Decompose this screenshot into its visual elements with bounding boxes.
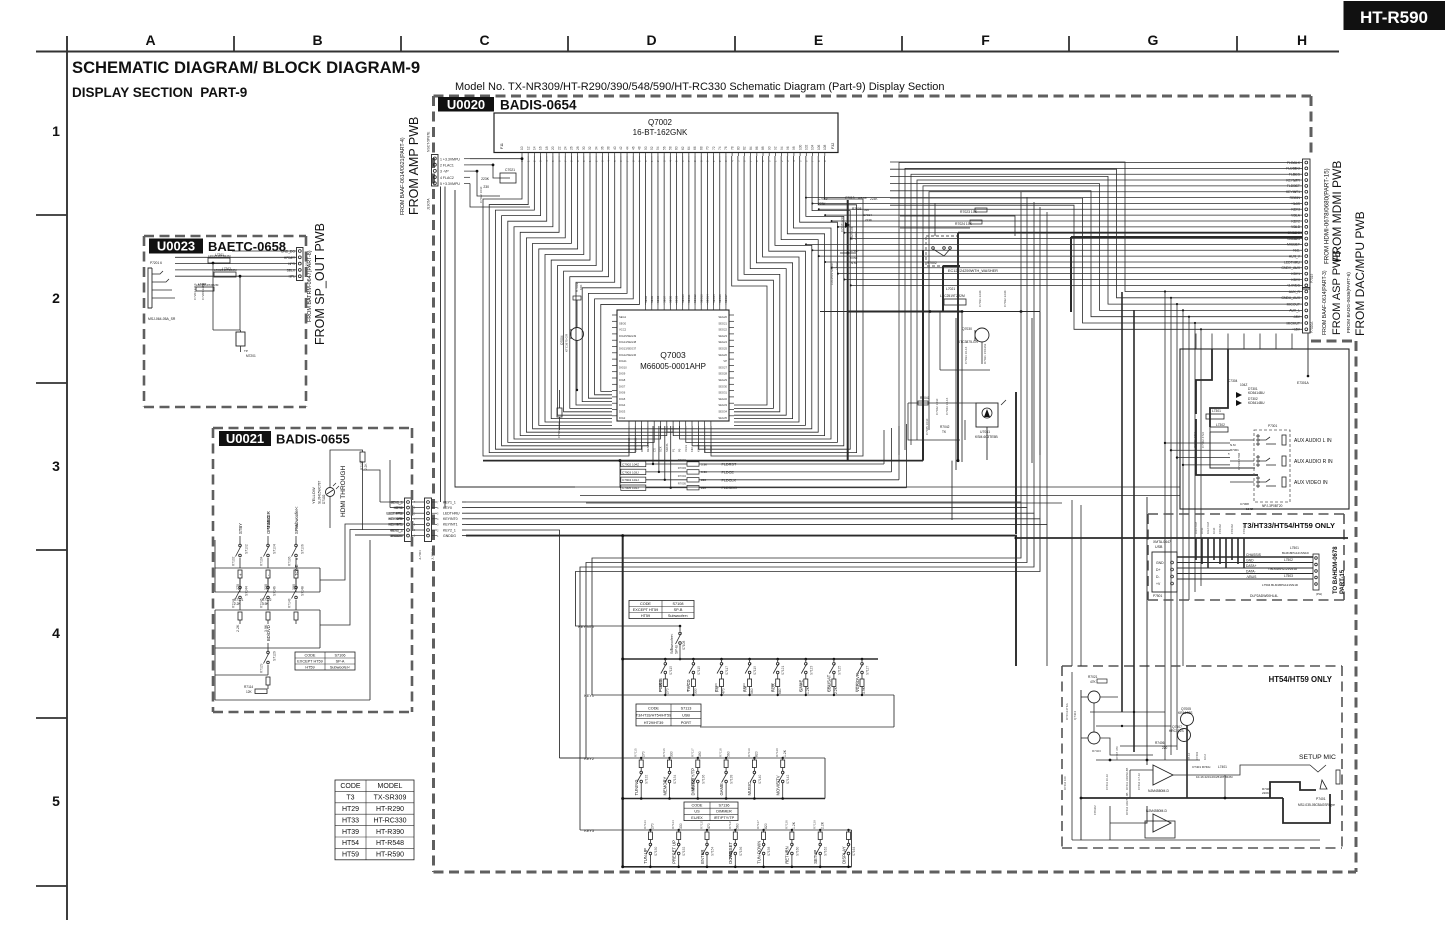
svg-text:78: 78 — [730, 146, 734, 150]
svg-text:P7201 6: P7201 6 — [150, 261, 162, 265]
svg-text:R7004: R7004 — [678, 474, 687, 478]
svg-text:56: 56 — [662, 146, 666, 150]
svg-text:R7111: R7111 — [798, 683, 802, 692]
svg-text:C7031 223K: C7031 223K — [978, 290, 982, 307]
svg-text:U0021: U0021 — [226, 431, 264, 446]
svg-text:*: * — [670, 648, 672, 653]
svg-text:BADIS-0654: BADIS-0654 — [500, 98, 577, 113]
svg-text:BADIS-0655: BADIS-0655 — [276, 432, 350, 447]
svg-text:S7127: S7127 — [866, 666, 870, 675]
svg-text:L7301: L7301 — [1212, 409, 1221, 413]
svg-text:230: 230 — [483, 185, 489, 189]
svg-text:104Z: 104Z — [1212, 527, 1216, 534]
svg-text:TUN UP: TUN UP — [643, 848, 648, 864]
svg-text:*: * — [1228, 452, 1230, 457]
svg-text:P7501: P7501 — [1153, 594, 1162, 598]
svg-text:SEG16: SEG16 — [718, 294, 722, 303]
svg-text:270: 270 — [651, 823, 655, 829]
svg-text:LRC2519T2R2M: LRC2519T2R2M — [208, 254, 231, 258]
svg-text:223K: 223K — [818, 202, 826, 206]
svg-text:C7045 104Z: C7045 104Z — [925, 418, 929, 435]
svg-text:USB: USB — [1155, 545, 1163, 549]
svg-text:D7412 UDZS6.8B: D7412 UDZS6.8B — [1125, 792, 1129, 815]
svg-text:1.2K: 1.2K — [806, 686, 810, 694]
svg-text:JL905A: JL905A — [427, 198, 431, 210]
svg-text:CODE: CODE — [640, 602, 651, 606]
svg-text:VSS: VSS — [703, 446, 707, 452]
svg-text:KIN: KIN — [690, 447, 694, 452]
svg-text:5 +3.3VMPU: 5 +3.3VMPU — [440, 182, 460, 186]
svg-text:74: 74 — [718, 146, 722, 150]
svg-text:DIG11: DIG11 — [619, 359, 627, 363]
svg-text:S7148: S7148 — [301, 586, 305, 596]
svg-text:18: 18 — [545, 146, 549, 150]
svg-text:54: 54 — [656, 146, 660, 150]
svg-text:FROM BADG-0636(PART-6): FROM BADG-0636(PART-6) — [1346, 272, 1352, 333]
svg-text:40: 40 — [613, 146, 617, 150]
svg-text:S7002: S7002 — [927, 261, 937, 265]
svg-text:28: 28 — [576, 146, 580, 150]
svg-text:22: 22 — [557, 146, 561, 150]
svg-text:XMTA-0447: XMTA-0447 — [1153, 540, 1171, 544]
svg-text:C7411 10-16: C7411 10-16 — [1105, 774, 1109, 790]
svg-text:R7102: R7102 — [232, 556, 236, 566]
svg-text:36: 36 — [601, 146, 605, 150]
svg-text:DIG15/SEG39: DIG15/SEG39 — [619, 334, 637, 338]
svg-text:SEG13: SEG13 — [699, 294, 703, 303]
svg-text:KD5414BU: KD5414BU — [1248, 401, 1265, 405]
svg-text:D: D — [646, 32, 656, 48]
svg-text:S7104: S7104 — [273, 544, 277, 554]
svg-text:DIG13/SEG37: DIG13/SEG37 — [619, 347, 637, 351]
svg-text:HT29: HT29 — [342, 806, 359, 813]
svg-text:MSJ-035-05CBAGSRtype: MSJ-035-05CBAGSRtype — [1298, 803, 1335, 807]
svg-text:DATA+: DATA+ — [1246, 564, 1257, 568]
svg-text:F11: F11 — [500, 143, 504, 149]
svg-text:HT-R590: HT-R590 — [376, 852, 404, 859]
svg-text:KEYINT1: KEYINT1 — [388, 523, 402, 527]
svg-text:30: 30 — [582, 146, 586, 150]
svg-text:46: 46 — [631, 146, 635, 150]
svg-text:R7119: R7119 — [747, 748, 751, 757]
svg-text:EXCEPT HT59: EXCEPT HT59 — [633, 608, 658, 612]
svg-text:DIG10: DIG10 — [619, 365, 627, 369]
svg-text:470: 470 — [707, 823, 711, 829]
svg-text:C7018 223K: C7018 223K — [840, 216, 844, 232]
svg-text:PORT: PORT — [681, 721, 692, 725]
svg-text:GNDDG: GNDDG — [390, 534, 403, 538]
svg-text:AUX AUDIO L IN: AUX AUDIO L IN — [1294, 438, 1332, 444]
svg-text:SEG21: SEG21 — [718, 321, 727, 325]
svg-text:R7118: R7118 — [719, 748, 723, 757]
svg-text:KRC102S: KRC102S — [1169, 729, 1184, 733]
svg-text:C7042 104Z: C7042 104Z — [935, 398, 939, 415]
svg-text:S7106: S7106 — [301, 544, 305, 554]
svg-text:S7115: S7115 — [697, 666, 701, 675]
svg-text:SEG6: SEG6 — [656, 295, 660, 303]
svg-text:TP: TP — [244, 349, 248, 353]
svg-text:LRC2519T2R2M: LRC2519T2R2M — [830, 263, 834, 285]
svg-text:E: E — [814, 32, 823, 48]
svg-text:R7123: R7123 — [643, 820, 647, 829]
svg-text:HT54/HT59 ONLY: HT54/HT59 ONLY — [1269, 675, 1333, 684]
svg-text:70: 70 — [706, 146, 710, 150]
svg-text:SP-B: SP-B — [674, 608, 683, 612]
svg-text:D-: D- — [1156, 575, 1160, 579]
svg-text:330: 330 — [679, 823, 683, 829]
svg-text:MSJ-064-05A_SR: MSJ-064-05A_SR — [148, 317, 176, 321]
svg-text:68: 68 — [699, 146, 703, 150]
svg-text:48: 48 — [638, 146, 642, 150]
svg-text:SDATA: SDATA — [665, 443, 669, 452]
svg-text:DIG3: DIG3 — [619, 410, 626, 414]
svg-text:*: * — [296, 558, 298, 564]
svg-text:C7308: C7308 — [1240, 502, 1249, 506]
svg-text:104: 104 — [811, 144, 815, 150]
svg-text:S7106: S7106 — [335, 653, 346, 657]
svg-text:R7107: R7107 — [686, 683, 690, 692]
svg-text:C7403: C7403 — [1195, 751, 1199, 760]
svg-text:223K: 223K — [870, 197, 878, 201]
svg-text:R7003: R7003 — [678, 466, 687, 470]
svg-text:SPLX: SPLX — [287, 268, 296, 272]
svg-text:KRA102S: KRA102S — [1178, 711, 1193, 715]
svg-text:84: 84 — [749, 146, 753, 150]
svg-text:3.9K: 3.9K — [262, 602, 269, 606]
svg-text:3 -VP: 3 -VP — [440, 170, 449, 174]
svg-text:CODE: CODE — [340, 783, 361, 790]
svg-text:Q7030: Q7030 — [962, 327, 972, 331]
svg-text:CHASSIS: CHASSIS — [1246, 553, 1262, 557]
svg-text:Q7003: Q7003 — [660, 350, 686, 360]
svg-text:R7116: R7116 — [662, 748, 666, 757]
svg-text:104Z: 104Z — [1246, 507, 1253, 511]
svg-text:26: 26 — [570, 146, 574, 150]
svg-text:SEG15: SEG15 — [712, 294, 716, 303]
svg-text:+V: +V — [1156, 582, 1161, 586]
svg-text:R7412 100: R7412 100 — [1063, 776, 1067, 790]
svg-text:HT59: HT59 — [342, 852, 359, 859]
svg-text:SP-B: SP-B — [675, 645, 679, 654]
svg-text:C7033 10-16: C7033 10-16 — [964, 346, 968, 364]
svg-text:SEG31: SEG31 — [718, 391, 727, 395]
svg-text:50: 50 — [644, 146, 648, 150]
svg-text:S7138: S7138 — [730, 775, 734, 784]
svg-text:YELLOW: YELLOW — [311, 487, 316, 504]
svg-text:OSC: OSC — [709, 446, 713, 452]
svg-text:DIG12/SEG36: DIG12/SEG36 — [619, 353, 637, 357]
svg-text:R7127: R7127 — [756, 820, 760, 829]
svg-text:1.2K: 1.2K — [792, 821, 796, 829]
svg-text:C7904 101J: C7904 101J — [622, 478, 639, 482]
svg-text:R7106: R7106 — [288, 556, 292, 566]
svg-text:C7022 104Z: C7022 104Z — [479, 186, 483, 203]
svg-text:P7401: P7401 — [1316, 797, 1326, 801]
svg-text:EC12E24259WTH_WASHER: EC12E24259WTH_WASHER — [948, 269, 998, 273]
svg-text:R7417 470: R7417 470 — [1115, 746, 1119, 760]
svg-text:4.8-63: 4.8-63 — [858, 196, 867, 200]
svg-text:KEYINT0: KEYINT0 — [443, 517, 458, 521]
svg-text:1.2K: 1.2K — [783, 749, 787, 757]
svg-text:SEG4: SEG4 — [644, 295, 648, 303]
svg-text:S7158: S7158 — [767, 847, 771, 856]
svg-text:P7020A: P7020A — [1310, 321, 1314, 333]
svg-text:S7134: S7134 — [673, 775, 677, 784]
svg-text:94: 94 — [780, 146, 784, 150]
svg-text:3.3K: 3.3K — [701, 462, 707, 466]
svg-text:C7304: C7304 — [1228, 379, 1238, 383]
svg-text:47-16: 47-16 — [1187, 752, 1191, 760]
svg-text:SEG12: SEG12 — [693, 294, 697, 303]
svg-text:Q7004: Q7004 — [560, 335, 564, 345]
svg-text:82: 82 — [743, 146, 747, 150]
svg-text:S7119: S7119 — [753, 666, 757, 675]
svg-text:220: 220 — [701, 478, 706, 482]
svg-text:T3/HT33/HT54/HT59: T3/HT33/HT54/HT59 — [636, 714, 671, 718]
svg-text:Subwoofer<: Subwoofer< — [668, 614, 689, 618]
svg-text:SCHEMATIC DIAGRAM/ BLOCK DIAGR: SCHEMATIC DIAGRAM/ BLOCK DIAGRAM-9 — [72, 58, 420, 77]
svg-text:SETUP MIC: SETUP MIC — [1299, 754, 1336, 761]
svg-text:S7144: S7144 — [245, 586, 249, 596]
svg-text:S7154: S7154 — [711, 847, 715, 856]
svg-text:S7113: S7113 — [681, 706, 692, 710]
svg-text:680: 680 — [778, 688, 782, 694]
svg-text:C7302 472J: C7302 472J — [1201, 431, 1205, 448]
svg-text:270: 270 — [666, 688, 670, 694]
svg-text:FROM MDMI PWB: FROM MDMI PWB — [1330, 161, 1344, 262]
svg-text:FROM AMP PWB: FROM AMP PWB — [407, 117, 421, 215]
svg-text:D7002: D7002 — [854, 231, 858, 240]
svg-text:DIG2: DIG2 — [619, 416, 626, 420]
svg-text:12K: 12K — [246, 690, 253, 694]
svg-text:S7136: S7136 — [719, 803, 730, 807]
svg-text:3: 3 — [52, 458, 60, 474]
svg-text:KD5414BU: KD5414BU — [1248, 391, 1265, 395]
svg-text:BAETC-0658: BAETC-0658 — [208, 239, 286, 254]
svg-text:C7903 103J: C7903 103J — [622, 470, 639, 474]
svg-text:SEG10: SEG10 — [681, 294, 685, 303]
svg-text:PART-15: PART-15 — [1340, 569, 1346, 594]
svg-text:MOVIE/TV: MOVIE/TV — [776, 775, 781, 795]
svg-text:62: 62 — [681, 146, 685, 150]
svg-text:SEG7: SEG7 — [662, 295, 666, 303]
svg-text:MUSIC: MUSIC — [266, 516, 271, 530]
svg-text:DIG7: DIG7 — [619, 384, 626, 388]
svg-text:60: 60 — [675, 146, 679, 150]
svg-text:D7411 UDZS6.8B: D7411 UDZS6.8B — [1125, 768, 1129, 790]
svg-text:2 FLAC1: 2 FLAC1 — [440, 164, 454, 168]
svg-text:330: 330 — [670, 751, 674, 757]
svg-text:B: B — [312, 32, 322, 48]
svg-text:G: G — [1148, 32, 1159, 48]
svg-text:P7019: P7019 — [1310, 274, 1314, 283]
svg-text:C7019: C7019 — [818, 197, 828, 201]
svg-text:270: 270 — [641, 751, 645, 757]
svg-text:2.2K: 2.2K — [236, 624, 240, 632]
svg-text:TUN DOWN: TUN DOWN — [756, 841, 761, 864]
svg-text:VCC2: VCC2 — [619, 328, 627, 332]
svg-text:SEG35: SEG35 — [718, 416, 727, 420]
svg-text:S7102: S7102 — [245, 544, 249, 554]
svg-text:HT-R548: HT-R548 — [376, 840, 404, 847]
svg-text:S7108: S7108 — [673, 602, 684, 606]
svg-text:S7142: S7142 — [786, 775, 790, 784]
svg-text:HT-R290: HT-R290 — [376, 806, 404, 813]
svg-text:20: 20 — [551, 146, 555, 150]
svg-text:KOUT: KOUT — [697, 444, 701, 452]
svg-text:90: 90 — [767, 146, 771, 150]
svg-text:5: 5 — [52, 793, 60, 809]
svg-text:HT29/HT39: HT29/HT39 — [644, 721, 664, 725]
svg-text:R7403: R7403 — [1092, 749, 1101, 753]
svg-text:VCC1: VCC1 — [684, 444, 688, 452]
svg-text:R7120: R7120 — [775, 748, 779, 757]
svg-text:LBC2519T2R2M: LBC2519T2R2M — [196, 283, 219, 287]
svg-text:KEYINT0: KEYINT0 — [578, 625, 594, 629]
svg-text:R7114: R7114 — [244, 685, 253, 689]
svg-text:KEYINT0: KEYINT0 — [388, 517, 402, 521]
svg-text:4 FLAC2: 4 FLAC2 — [440, 176, 454, 180]
svg-text:LRC2519T2R2M: LRC2519T2R2M — [1210, 775, 1233, 779]
svg-text:CT401 R740x: CT401 R740x — [1192, 765, 1211, 769]
svg-text:SEG11: SEG11 — [687, 294, 691, 303]
svg-text:LEDTHRU: LEDTHRU — [443, 512, 460, 516]
svg-text:E7301A: E7301A — [1297, 381, 1310, 385]
svg-text:Q7404: Q7404 — [1073, 711, 1077, 720]
svg-text:76: 76 — [724, 146, 728, 150]
svg-text:R7109: R7109 — [742, 683, 746, 692]
svg-text:1S5362: 1S5362 — [1093, 805, 1097, 815]
svg-text:R7008: R7008 — [852, 207, 862, 211]
svg-text:52: 52 — [650, 146, 654, 150]
svg-text:S7123: S7123 — [809, 666, 813, 675]
svg-text:IRT/PTY/TP: IRT/PTY/TP — [714, 816, 735, 820]
svg-text:R7125: R7125 — [700, 820, 704, 829]
svg-text:R7126: R7126 — [728, 820, 732, 829]
svg-text:CODE: CODE — [692, 803, 703, 807]
svg-text:S7160: S7160 — [795, 847, 799, 856]
svg-text:S7108: S7108 — [682, 641, 686, 650]
svg-text:32: 32 — [588, 146, 592, 150]
svg-text:330: 330 — [694, 688, 698, 694]
svg-text:C7043 10-16: C7043 10-16 — [945, 397, 949, 415]
svg-text:HT59: HT59 — [305, 665, 314, 669]
svg-text:FROM ASP PWB: FROM ASP PWB — [1331, 250, 1343, 335]
svg-text:KEY2_1: KEY2_1 — [443, 528, 456, 532]
svg-text:12: 12 — [526, 146, 530, 150]
svg-text:SEG25: SEG25 — [718, 347, 727, 351]
svg-text:C7001 104J: C7001 104J — [557, 421, 561, 438]
svg-text:10kJ N.M: 10kJ N.M — [1206, 522, 1210, 534]
svg-text:SEG1: SEG1 — [619, 315, 627, 319]
svg-text:102: 102 — [804, 144, 808, 150]
svg-text:STBY: STBY — [238, 523, 243, 534]
svg-text:XX50: XX50 — [850, 256, 858, 260]
svg-text:-VBUS: -VBUS — [1246, 575, 1257, 579]
svg-text:KEY2_1: KEY2_1 — [390, 528, 402, 532]
svg-text:R7117: R7117 — [690, 748, 694, 757]
svg-text:DIG4: DIG4 — [619, 403, 626, 407]
svg-text:KEYINT1: KEYINT1 — [443, 523, 458, 527]
svg-text:HT59: HT59 — [641, 614, 650, 618]
svg-text:T3/HT33/HT54/HT59 ONLY: T3/HT33/HT54/HT59 ONLY — [1243, 521, 1335, 530]
svg-text:1SS362: 1SS362 — [1218, 524, 1222, 534]
svg-text:US: US — [694, 810, 700, 814]
svg-text:560: 560 — [726, 751, 730, 757]
svg-text:DISPLAY SECTION PART-9: DISPLAY SECTION PART-9 — [72, 85, 247, 100]
svg-text:SEG20: SEG20 — [718, 315, 727, 319]
svg-text:FLDRST: FLDRST — [722, 463, 737, 467]
svg-text:S7152: S7152 — [682, 847, 686, 856]
svg-text:GND: GND — [1156, 561, 1164, 565]
svg-text:R7301: R7301 — [1230, 448, 1239, 452]
svg-text:TUNING: TUNING — [634, 779, 639, 795]
svg-text:P7301: P7301 — [1268, 424, 1277, 428]
svg-text:108: 108 — [823, 144, 827, 150]
svg-text:SEG8: SEG8 — [669, 295, 673, 303]
svg-text:SEG22: SEG22 — [718, 328, 727, 332]
svg-text:RESET: RESET — [646, 443, 650, 452]
svg-text:104Z: 104Z — [1200, 527, 1204, 534]
svg-text:M66005-0001AHP: M66005-0001AHP — [640, 362, 706, 371]
svg-text:92: 92 — [774, 146, 778, 150]
svg-text:DIG6: DIG6 — [619, 391, 626, 395]
svg-text:F32: F32 — [831, 143, 835, 149]
svg-text:58: 58 — [669, 146, 673, 150]
svg-text:AUX AUDIO R IN: AUX AUDIO R IN — [1294, 459, 1333, 465]
svg-text:S7117: S7117 — [725, 666, 729, 675]
svg-text:HT-R390: HT-R390 — [376, 829, 404, 836]
svg-text:R7129: R7129 — [813, 820, 817, 829]
svg-text:RETURN: RETURN — [785, 846, 790, 863]
svg-text:GNDDG: GNDDG — [443, 534, 456, 538]
svg-text:24: 24 — [563, 146, 567, 150]
svg-text:Q7002: Q7002 — [648, 118, 673, 127]
svg-text:FROM BAAF-0614/0621(PART-4): FROM BAAF-0614/0621(PART-4) — [400, 137, 406, 215]
svg-text:2: 2 — [52, 290, 60, 306]
svg-text:101J: 101J — [1203, 753, 1207, 760]
svg-text:SEG0: SEG0 — [619, 321, 627, 325]
svg-text:2.2K: 2.2K — [820, 821, 824, 829]
svg-text:10kJ N.M: 10kJ N.M — [1194, 522, 1198, 534]
svg-text:GAME: GAME — [719, 783, 724, 796]
svg-text:R7406: R7406 — [1155, 741, 1165, 745]
svg-text:KEY1_1: KEY1_1 — [443, 500, 456, 504]
svg-text:DIG0: DIG0 — [640, 445, 644, 452]
svg-text:SEG14: SEG14 — [706, 294, 710, 303]
svg-text:HT-R590: HT-R590 — [1360, 8, 1428, 27]
svg-text:L7504 BLM18PG121SN1D: L7504 BLM18PG121SN1D — [1262, 583, 1299, 587]
svg-text:C7014: C7014 — [863, 213, 872, 217]
svg-text:PRESET UP: PRESET UP — [672, 840, 677, 864]
svg-text:16-BT-162GNK: 16-BT-162GNK — [633, 128, 688, 137]
svg-text:44: 44 — [625, 146, 629, 150]
svg-text:TX-SR309: TX-SR309 — [374, 795, 407, 802]
svg-text:LEDTHRU: LEDTHRU — [386, 512, 402, 516]
svg-text:72: 72 — [712, 146, 716, 150]
svg-text:DTC114TKA: DTC114TKA — [1065, 703, 1069, 720]
svg-text:2.2K: 2.2K — [364, 463, 368, 470]
svg-text:L7302: L7302 — [1216, 423, 1225, 427]
svg-text:DIG9: DIG9 — [619, 372, 626, 376]
svg-text:38: 38 — [607, 146, 611, 150]
svg-text:R7106: R7106 — [658, 683, 662, 692]
svg-text:L7501: L7501 — [1290, 546, 1299, 550]
svg-text:TONE: TONE — [294, 564, 299, 576]
svg-text:P0: P0 — [678, 448, 682, 452]
svg-text:98: 98 — [792, 146, 796, 150]
svg-text:223K: 223K — [865, 218, 872, 222]
